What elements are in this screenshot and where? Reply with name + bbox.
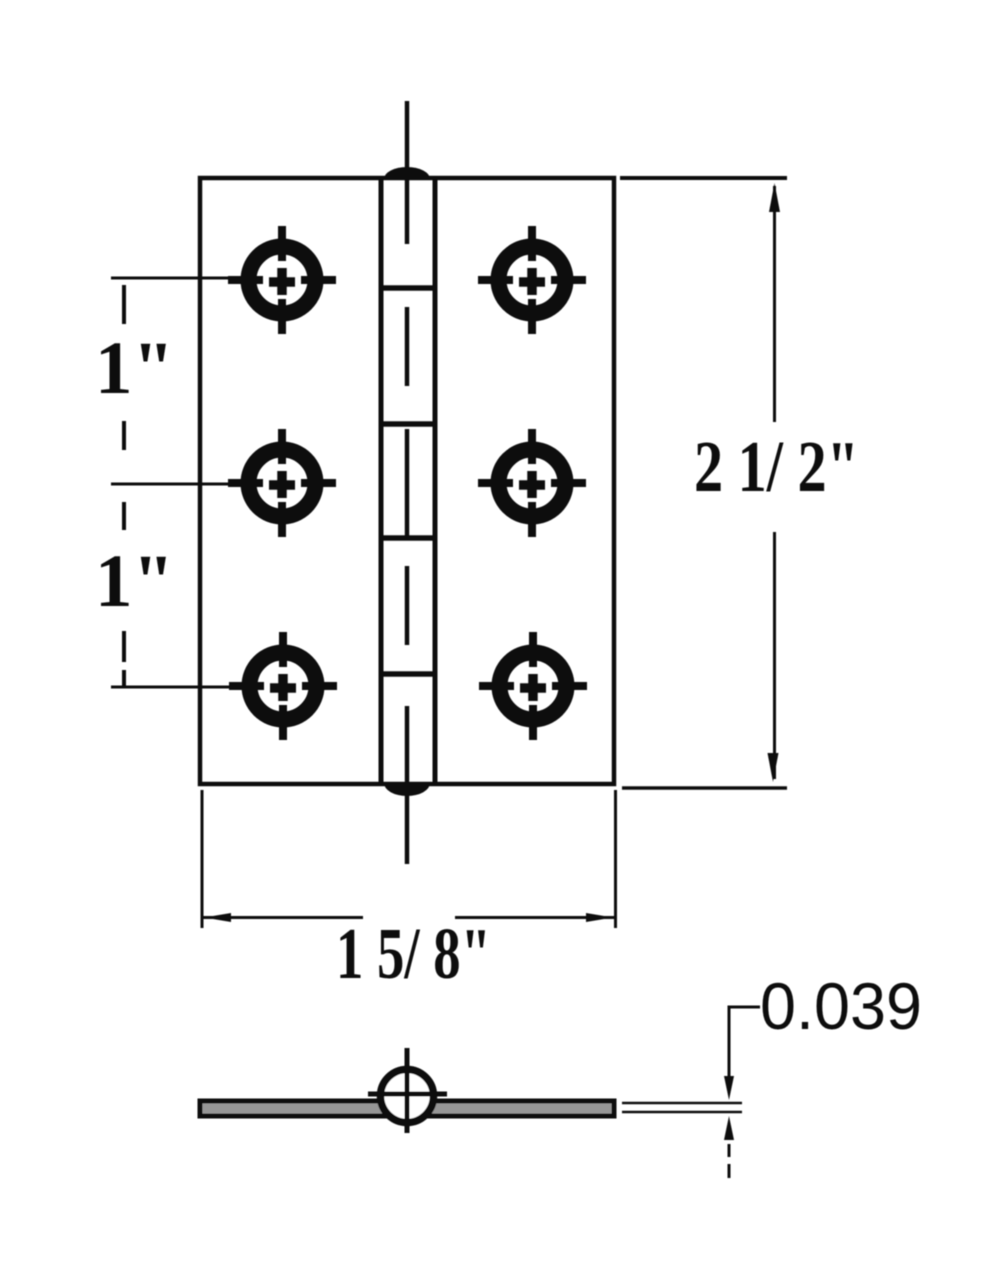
arrowhead right — [586, 913, 613, 922]
svg-text:0.039: 0.039 — [760, 969, 922, 1043]
knuckle divider 2 — [379, 421, 437, 427]
pin centerline (dashed) — [405, 101, 410, 864]
leader arrowhead up with dashes below — [724, 1116, 734, 1140]
arrowhead down — [768, 753, 779, 782]
leader arrowhead down — [724, 1076, 734, 1100]
svg-text:1": 1" — [95, 327, 174, 410]
screw hole R2 — [478, 429, 586, 537]
left extension line bottom — [201, 790, 204, 928]
knuckle right edge — [433, 178, 438, 784]
pin head dome top — [384, 167, 430, 179]
leader corner to 0.039 — [729, 1007, 760, 1080]
top extension line right — [620, 176, 787, 180]
bottom extension line right — [622, 786, 787, 790]
svg-text:2 1/ 2": 2 1/ 2" — [694, 426, 859, 507]
knuckle divider 4 — [379, 671, 437, 677]
screw hole L1 — [228, 226, 336, 334]
screw hole R3 — [479, 632, 587, 740]
horizontal dimension line left segment — [203, 916, 363, 919]
screw hole L2 — [228, 429, 336, 537]
knuckle divider 1 — [379, 285, 437, 291]
hinge leaf outline — [200, 178, 614, 784]
dimension leader hole L2 — [111, 483, 229, 486]
vertical dimension line upper segment — [773, 186, 776, 422]
vertical dimension line lower segment — [773, 532, 776, 779]
pin head dome bottom — [384, 783, 430, 796]
left dashed extension line — [122, 285, 126, 687]
thickness extension line bottom — [622, 1111, 742, 1114]
leader dash segments below — [728, 1144, 731, 1178]
horizontal dimension line right segment — [455, 916, 614, 919]
arrowhead up — [769, 183, 780, 212]
dimension leader hole L1 — [111, 277, 229, 280]
side view leaf bar — [200, 1101, 614, 1116]
svg-text:1 5/ 8": 1 5/ 8" — [336, 913, 491, 994]
screw hole L3 — [229, 632, 337, 740]
screw hole R1 — [478, 226, 586, 334]
side view horizontal centerline — [368, 1092, 447, 1097]
side view pin barrel — [381, 1070, 434, 1123]
right extension line bottom — [614, 790, 617, 928]
thickness extension line top — [622, 1102, 742, 1105]
svg-text:1": 1" — [95, 540, 174, 623]
knuckle divider 3 — [379, 535, 437, 541]
knuckle left edge — [379, 178, 384, 784]
dimension leader hole L3 — [111, 686, 230, 689]
arrowhead left — [204, 913, 231, 922]
side view vertical centerline — [405, 1048, 410, 1133]
